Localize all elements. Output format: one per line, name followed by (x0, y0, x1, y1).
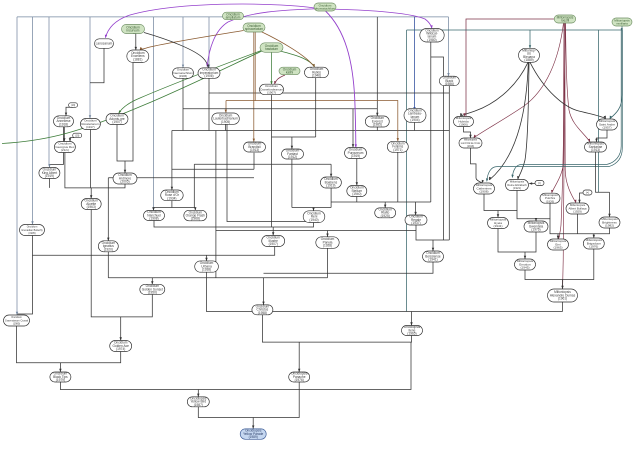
svg-text:(1974): (1974) (116, 347, 125, 351)
svg-text:(1928): (1928) (323, 244, 332, 248)
svg-text:(1986): (1986) (445, 82, 454, 86)
svg-text:(19): (19) (71, 104, 75, 107)
svg-text:(1908): (1908) (149, 217, 158, 221)
svg-text:(1917): (1917) (86, 125, 95, 129)
svg-text:(1938): (1938) (202, 268, 211, 272)
svg-text:(1976): (1976) (531, 228, 540, 232)
svg-text:(1945): (1945) (521, 266, 530, 270)
svg-text:(1965): (1965) (554, 246, 563, 250)
svg-text:(1881): (1881) (133, 57, 142, 61)
svg-text:(1987): (1987) (194, 403, 203, 407)
svg-text:(1937): (1937) (411, 221, 420, 225)
svg-text:(1985): (1985) (373, 123, 382, 127)
svg-text:roezlii: roezlii (561, 19, 570, 23)
svg-text:(21/1): (21/1) (61, 148, 69, 152)
svg-text:(1913): (1913) (467, 145, 474, 148)
svg-text:(1907): (1907) (112, 120, 121, 124)
svg-text:(1963): (1963) (87, 205, 96, 209)
svg-text:(1913): (1913) (591, 148, 600, 152)
svg-text:(1905): (1905) (221, 120, 230, 124)
svg-text:(19): (19) (75, 134, 79, 137)
svg-text:(1965): (1965) (407, 332, 416, 336)
svg-text:(1940): (1940) (352, 192, 361, 196)
svg-text:(1919): (1919) (45, 174, 54, 178)
svg-text:(1980): (1980) (427, 38, 436, 42)
svg-text:(1906): (1906) (204, 74, 213, 78)
svg-text:(1912): (1912) (288, 155, 297, 159)
svg-text:kalihi: kalihi (286, 71, 294, 75)
svg-text:(1958): (1958) (258, 311, 267, 315)
svg-text:phymatochilum: phymatochilum (315, 7, 336, 11)
svg-text:(1976): (1976) (589, 245, 598, 249)
svg-text:sphacelatum: sphacelatum (245, 27, 263, 31)
svg-text:(1889): (1889) (524, 58, 533, 62)
svg-text:(1971): (1971) (393, 148, 402, 152)
svg-text:(1957): (1957) (603, 126, 612, 130)
svg-text:(=): (=) (538, 182, 541, 185)
svg-text:ampliatum: ampliatum (226, 16, 241, 20)
svg-text:(1913): (1913) (250, 148, 259, 152)
svg-text:(1906): (1906) (179, 74, 187, 78)
svg-text:(1946): (1946) (312, 74, 321, 78)
svg-text:(1905): (1905) (28, 232, 35, 235)
svg-text:(1920): (1920) (104, 247, 113, 251)
svg-text:(1921): (1921) (513, 186, 521, 190)
svg-text:(1980): (1980) (13, 323, 20, 326)
svg-text:(=): (=) (586, 191, 589, 194)
svg-text:(1941): (1941) (494, 224, 503, 228)
svg-text:(1904): (1904) (410, 118, 419, 122)
svg-text:incurvum: incurvum (127, 29, 140, 33)
svg-text:(1934): (1934) (167, 196, 176, 200)
svg-text:(1941): (1941) (428, 258, 437, 262)
svg-text:(1961): (1961) (558, 297, 567, 301)
svg-text:(1925): (1925) (381, 214, 390, 218)
svg-text:(1989): (1989) (249, 435, 258, 439)
svg-text:(1908): (1908) (480, 190, 489, 194)
svg-text:hastatum: hastatum (265, 47, 278, 51)
svg-text:(1926): (1926) (546, 199, 555, 203)
svg-text:(2005): (2005) (120, 180, 129, 184)
svg-text:(1907): (1907) (269, 242, 278, 246)
svg-text:(1976): (1976) (295, 378, 304, 382)
svg-text:(1940): (1940) (309, 218, 318, 222)
svg-text:(1982): (1982) (605, 224, 614, 228)
svg-text:(1919): (1919) (351, 154, 360, 158)
svg-text:(1919): (1919) (326, 184, 335, 188)
svg-text:(1950): (1950) (148, 291, 157, 295)
svg-text:(1918): (1918) (59, 122, 68, 126)
svg-text:(1906): (1906) (459, 123, 468, 127)
svg-text:(1929): (1929) (573, 210, 582, 214)
svg-text:(1979): (1979) (56, 378, 65, 382)
svg-text:(1968): (1968) (191, 217, 200, 221)
svg-text:Lanceanum: Lanceanum (96, 41, 113, 45)
svg-text:(1907): (1907) (267, 91, 276, 95)
svg-text:vexillaria: vexillaria (616, 22, 628, 26)
